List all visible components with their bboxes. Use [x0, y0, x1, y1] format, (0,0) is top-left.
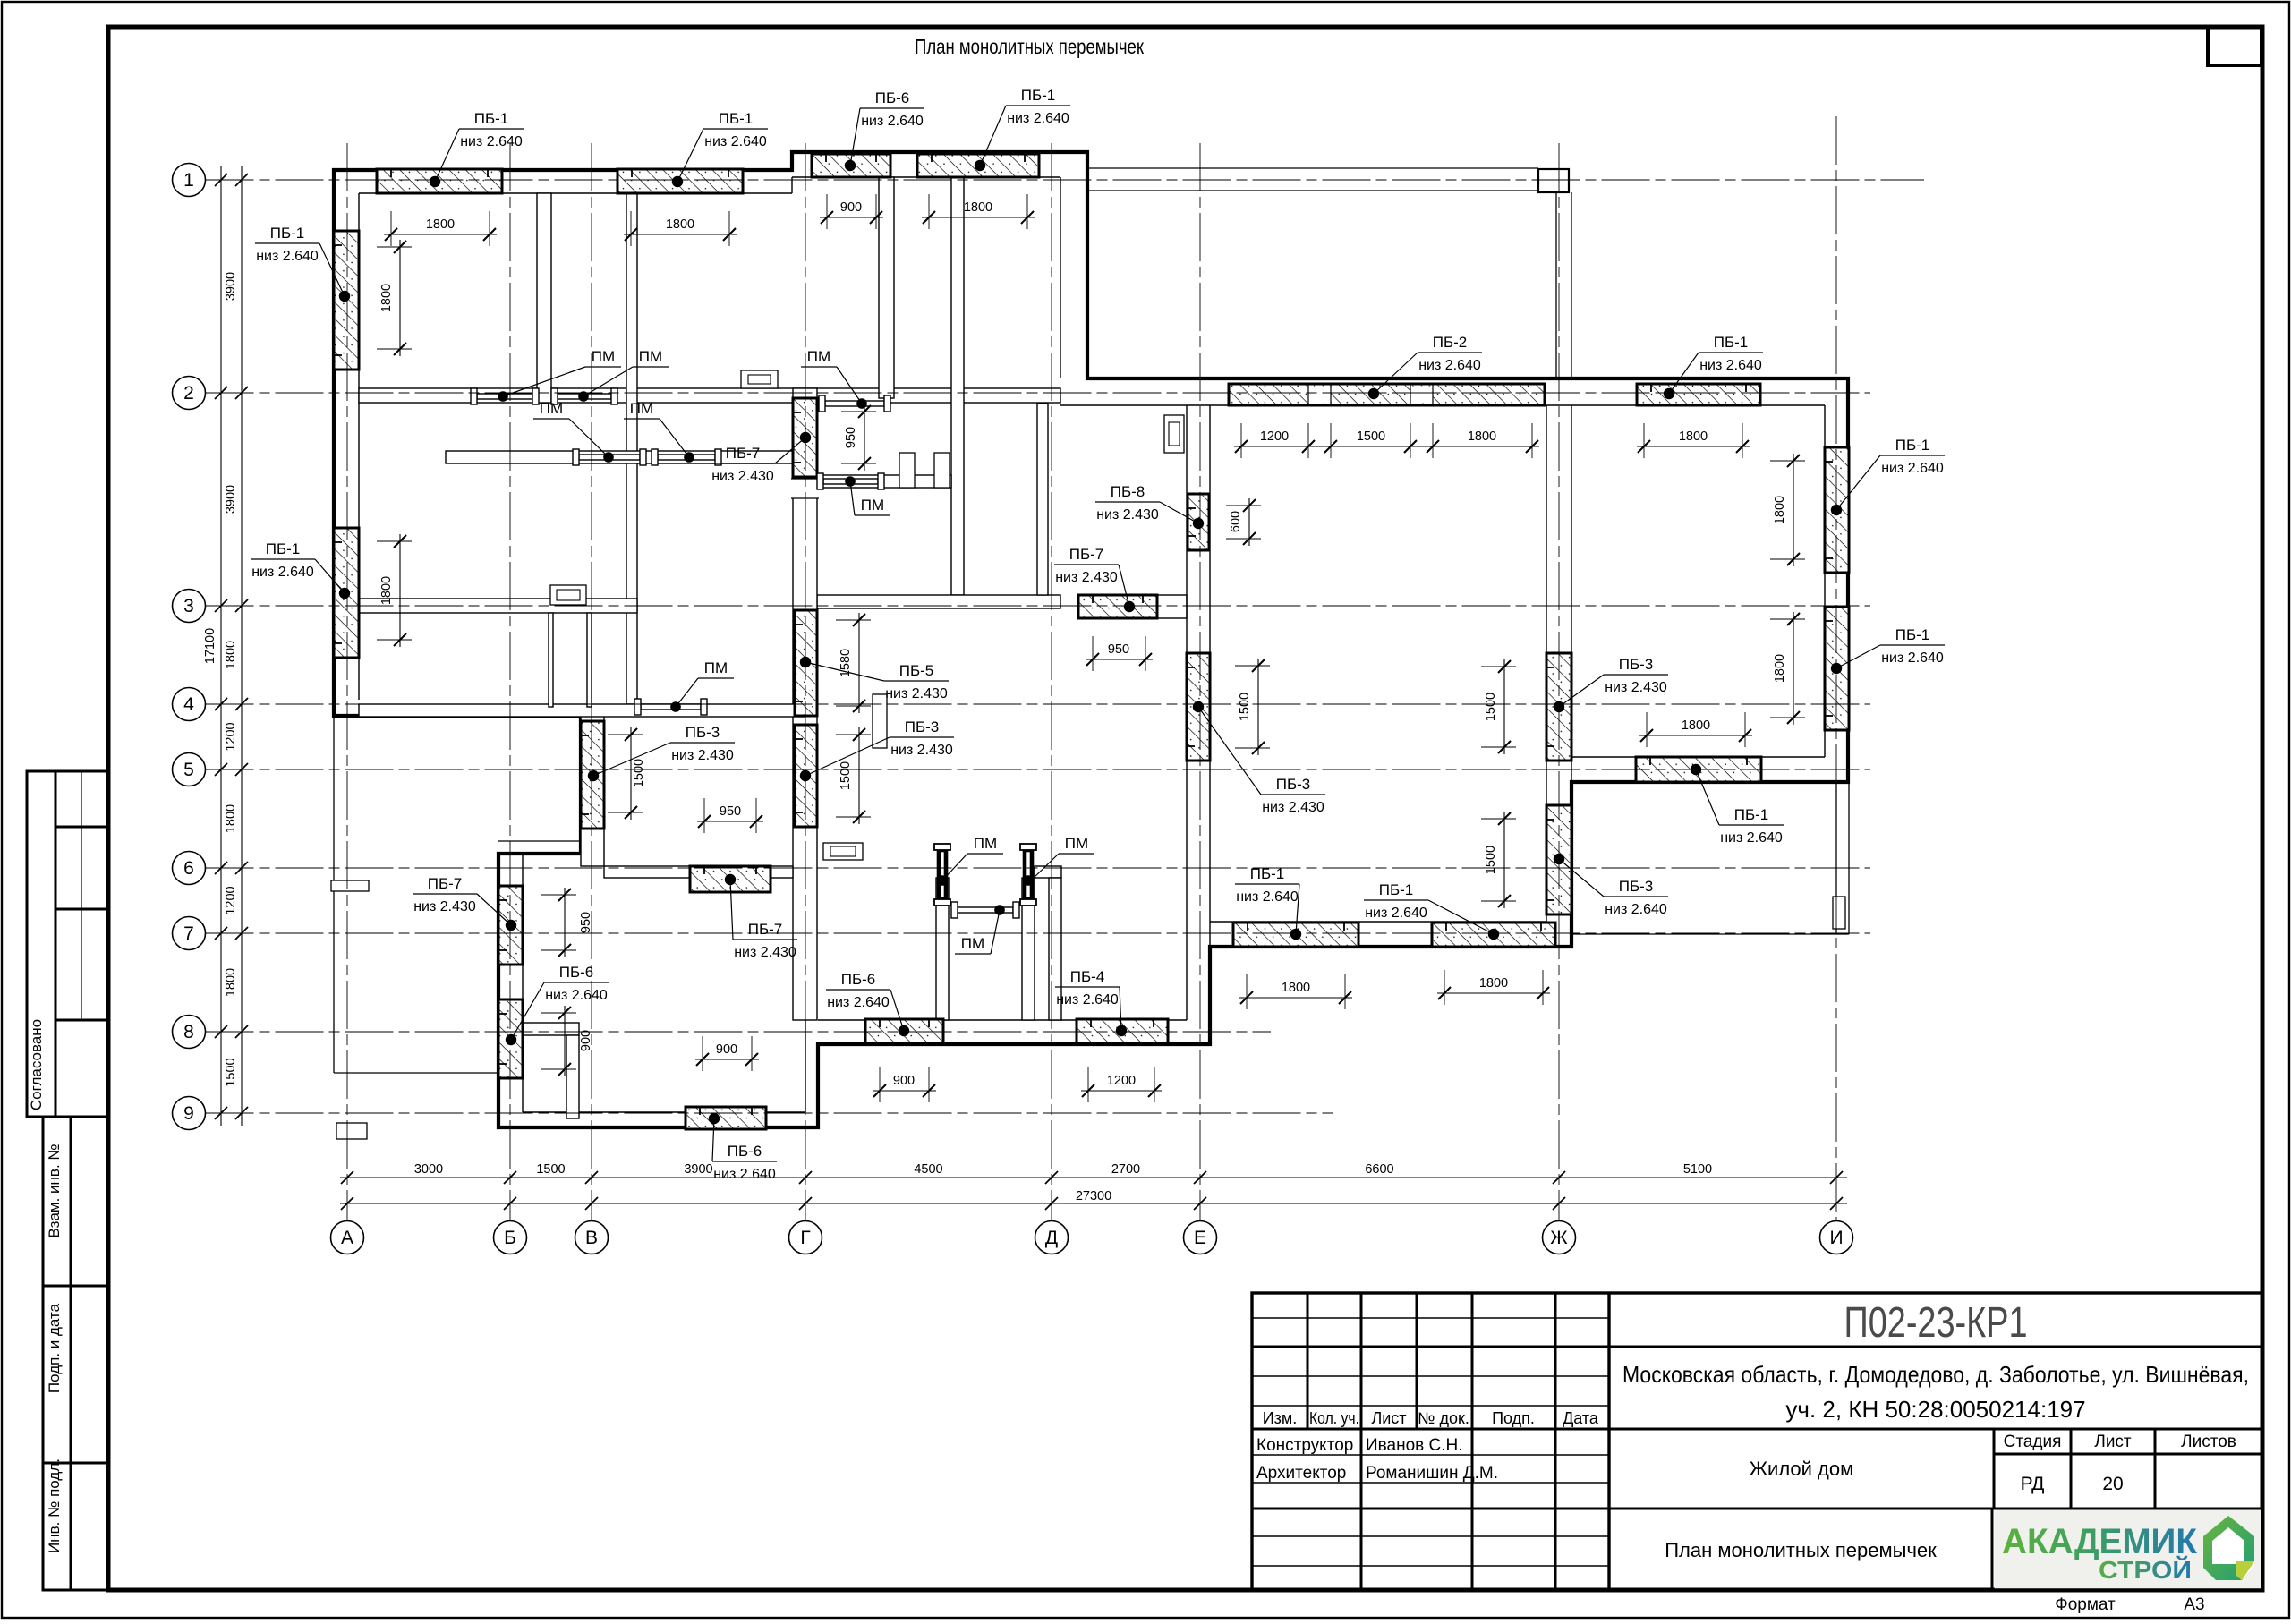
lintel ПБ-3 Ж-a	[1546, 653, 1571, 761]
wall axis Д south	[1049, 878, 1061, 1020]
left dimension lines	[220, 166, 222, 1126]
svg-text:1500: 1500	[839, 761, 853, 790]
label lintel row3 ПБ-7	[1054, 546, 1129, 607]
label lintel row9 ПБ-6	[712, 1118, 777, 1182]
wall duct east	[587, 613, 592, 707]
svg-text:1800: 1800	[426, 217, 455, 232]
label lintel row7-a	[1235, 865, 1299, 934]
axis column Д	[1051, 143, 1052, 1221]
wall porch west	[936, 878, 949, 1020]
wall boiler	[879, 177, 894, 398]
svg-text:900: 900	[716, 1042, 737, 1057]
lintel ПБ-5 Г-wall	[795, 610, 817, 716]
svg-text:СТРОЙ: СТРОЙ	[2099, 1555, 2192, 1584]
svg-text:950: 950	[1108, 642, 1129, 657]
svg-text:Лист: Лист	[2094, 1433, 2132, 1451]
svg-text:Подп. и дата: Подп. и дата	[46, 1303, 63, 1393]
axis column Е	[1199, 143, 1201, 1221]
svg-text:600: 600	[1229, 511, 1243, 532]
axis row 8	[206, 1031, 1272, 1033]
lintel ПБ-3 Е-wall	[1187, 653, 1210, 761]
svg-text:6: 6	[183, 858, 194, 879]
svg-text:ПМ: ПМ	[974, 835, 997, 852]
svg-text:1500: 1500	[536, 1162, 565, 1177]
wall corridor	[446, 451, 793, 463]
lintel ПМ corridor-a	[573, 449, 646, 465]
wall row6 east	[1035, 866, 1061, 878]
svg-text:1800: 1800	[1468, 429, 1496, 444]
label lintel top-3	[850, 89, 924, 166]
svg-text:2700: 2700	[1111, 1162, 1140, 1177]
label lintel left-1	[255, 225, 345, 296]
svg-text:Ж: Ж	[1550, 1228, 1568, 1248]
stamp box Взам. инв. №	[43, 1117, 108, 1286]
svg-text:8: 8	[183, 1022, 194, 1042]
wall room partition	[626, 193, 637, 704]
label lintel Г-b	[805, 718, 954, 776]
svg-text:1800: 1800	[1773, 654, 1787, 683]
svg-text:ПБ-1: ПБ-1	[1379, 881, 1414, 898]
axis column В	[591, 143, 592, 1221]
svg-text:ПБ-5: ПБ-5	[899, 662, 934, 679]
svg-text:ПБ-3: ПБ-3	[905, 718, 940, 735]
svg-text:ПБ-7: ПБ-7	[726, 445, 761, 462]
stamp box Согласовано	[27, 771, 108, 1117]
svg-text:Инв. № подл.: Инв. № подл.	[46, 1458, 63, 1553]
svg-text:Лист: Лист	[1371, 1409, 1406, 1427]
lintel ПБ-1 row7-b	[1432, 923, 1555, 947]
label lintel top-4	[980, 87, 1070, 166]
label lintel Е ПБ-3	[1198, 707, 1325, 815]
wall row6	[604, 866, 793, 878]
wall porch east	[1022, 878, 1035, 1020]
svg-text:ПБ-6: ПБ-6	[559, 964, 594, 981]
svg-text:ПБ-1: ПБ-1	[1250, 865, 1285, 882]
svg-text:ПБ-3: ПБ-3	[1619, 656, 1654, 673]
svg-text:1200: 1200	[224, 886, 238, 914]
svg-text:План монолитных перемычек: План монолитных перемычек	[1665, 1539, 1937, 1561]
lintel ПМ row2-b	[551, 388, 617, 404]
lintel ПБ-1 И-wall-2	[1825, 607, 1849, 730]
axis column Б	[509, 143, 511, 1221]
svg-text:низ 2.640: низ 2.640	[1236, 889, 1299, 905]
svg-text:А: А	[341, 1228, 353, 1248]
lintel ПБ-1 top-2	[617, 169, 743, 193]
stair door jambs	[899, 453, 915, 488]
frame corner box	[2208, 27, 2261, 65]
svg-text:Г: Г	[800, 1228, 810, 1248]
svg-text:ПБ-6: ПБ-6	[841, 971, 876, 988]
lintel ПБ-7 row3	[1078, 595, 1157, 618]
wall corridor east	[817, 475, 951, 488]
svg-text:1500: 1500	[1484, 846, 1498, 874]
vent shaft row2	[741, 370, 778, 388]
axis row 9	[206, 1112, 1334, 1114]
svg-text:900: 900	[840, 200, 862, 215]
vent shaft row3	[550, 585, 586, 605]
svg-text:ПБ-1: ПБ-1	[1714, 334, 1749, 351]
label lintel Г-a	[711, 438, 805, 484]
terrace window	[1833, 897, 1845, 929]
wall bath east	[566, 1035, 579, 1118]
svg-text:Конструктор: Конструктор	[1256, 1436, 1353, 1455]
svg-text:ПМ: ПМ	[630, 400, 653, 417]
lintel ПБ-3 Ж-b	[1546, 805, 1571, 914]
label lintel ПБ-5	[805, 662, 949, 701]
svg-text:Б: Б	[504, 1228, 516, 1248]
axis column Г	[805, 143, 806, 1221]
svg-text:РД: РД	[2021, 1474, 2045, 1494]
door gap in wall Г	[791, 479, 819, 498]
svg-text:1500: 1500	[224, 1058, 238, 1086]
wall bath	[523, 1023, 579, 1035]
lintel ПБ-8 Е-wall	[1188, 494, 1209, 550]
svg-text:План монолитных перемычек: План монолитных перемычек	[915, 35, 1145, 58]
wall stair	[1037, 404, 1048, 595]
wall row3 Д-Е	[1087, 595, 1187, 618]
svg-text:3: 3	[183, 596, 194, 616]
svg-text:ПБ-1: ПБ-1	[719, 110, 754, 127]
label ПМ	[955, 910, 1000, 954]
axis row 1	[206, 179, 1925, 181]
svg-text:4: 4	[183, 694, 194, 715]
left lower pier	[336, 1123, 367, 1139]
lintel ПБ-3 В-wall	[581, 721, 604, 829]
svg-text:1800: 1800	[224, 641, 238, 669]
lintel ПМ corridor-c	[817, 473, 884, 489]
label lintel Б-2	[413, 875, 511, 925]
svg-text:5100: 5100	[1683, 1162, 1712, 1177]
stamp box Подп. и дата	[43, 1286, 108, 1463]
svg-text:низ 2.430: низ 2.430	[890, 743, 953, 758]
svg-text:низ 2.430: низ 2.430	[1262, 800, 1324, 815]
axis row 2	[206, 392, 1871, 394]
svg-text:ПБ-2: ПБ-2	[1433, 334, 1468, 351]
svg-text:низ 2.640: низ 2.640	[1365, 906, 1427, 921]
lintel ПМ porch-e	[1020, 844, 1036, 906]
svg-text:Иванов С.Н.: Иванов С.Н.	[1366, 1436, 1463, 1455]
svg-text:Московская область, г. Домодед: Московская область, г. Домодедово, д. За…	[1622, 1361, 2249, 1388]
svg-text:1200: 1200	[1107, 1074, 1136, 1088]
svg-text:низ 2.430: низ 2.430	[1096, 507, 1159, 523]
lintel ПБ-7 Г-a	[793, 398, 817, 477]
terrace wall on axis Ж	[1555, 192, 1557, 378]
label lintel row8 ПБ-6	[826, 971, 904, 1031]
svg-text:ПМ: ПМ	[540, 400, 563, 417]
label lintel Ж-b	[1559, 859, 1668, 917]
svg-text:низ 2.640: низ 2.640	[1056, 992, 1119, 1008]
svg-text:низ 2.640: низ 2.640	[1418, 358, 1481, 373]
axis column Ж	[1558, 143, 1560, 1221]
svg-text:ПБ-1: ПБ-1	[474, 110, 509, 127]
lintel ПМ row2-a	[471, 388, 539, 404]
lintel ПБ-6 top-3	[812, 154, 890, 177]
svg-text:Стадия: Стадия	[2004, 1433, 2062, 1451]
wall row3 mid	[817, 595, 1060, 608]
svg-text:950: 950	[844, 427, 858, 448]
svg-text:ПБ-4: ПБ-4	[1070, 968, 1105, 985]
svg-text:1500: 1500	[1484, 693, 1498, 721]
axis row 4	[206, 703, 1871, 705]
wall duct west	[549, 613, 553, 707]
svg-text:ПМ: ПМ	[807, 348, 830, 365]
svg-text:П02-23-КР1: П02-23-КР1	[1844, 1299, 2028, 1347]
label lintel right-top	[1669, 334, 1763, 394]
svg-text:900: 900	[893, 1074, 915, 1088]
vent shaft axis Е	[1164, 415, 1184, 453]
svg-text:ПМ: ПМ	[1065, 835, 1088, 852]
axis row 5	[206, 769, 1871, 770]
wall axis В	[581, 716, 604, 866]
svg-text:Изм.: Изм.	[1263, 1409, 1298, 1427]
svg-text:низ 2.640: низ 2.640	[704, 134, 767, 149]
svg-text:Романишин Д.М.: Романишин Д.М.	[1366, 1464, 1498, 1483]
label lintel row5	[1696, 769, 1784, 846]
svg-text:1200: 1200	[1260, 429, 1289, 444]
lintel ПБ-1 left-1	[334, 231, 359, 370]
label lintel row7-b	[1364, 881, 1494, 934]
svg-text:В: В	[585, 1228, 598, 1248]
svg-text:низ 2.640: низ 2.640	[1605, 902, 1667, 917]
svg-text:9: 9	[183, 1103, 194, 1124]
lintel ПМ row4	[634, 699, 707, 715]
svg-text:5: 5	[183, 760, 194, 780]
svg-text:1800: 1800	[224, 968, 238, 997]
svg-text:6600: 6600	[1365, 1162, 1393, 1177]
svg-text:ПБ-8: ПБ-8	[1111, 483, 1145, 500]
left terrace pier	[331, 880, 369, 891]
lintel ПБ-1 row5 Ж-И	[1636, 757, 1761, 782]
lintel ПБ-6 row9	[686, 1107, 766, 1129]
svg-text:И: И	[1829, 1228, 1843, 1248]
label ПМ	[942, 835, 1003, 880]
label lintel Б-3	[511, 964, 609, 1040]
svg-text:7: 7	[183, 923, 194, 944]
svg-text:ПБ-1: ПБ-1	[266, 540, 301, 557]
svg-text:№ док.: № док.	[1418, 1409, 1469, 1427]
wall closet	[537, 193, 551, 403]
svg-text:1800: 1800	[964, 200, 992, 215]
label ПМ	[1031, 835, 1094, 880]
svg-text:1200: 1200	[224, 722, 238, 751]
wall row4	[359, 704, 805, 717]
label lintel ПБ-8	[1095, 483, 1198, 523]
wall axis Е	[1186, 405, 1188, 1020]
lintel ПБ-6 Б-3	[498, 999, 523, 1078]
svg-text:ПМ: ПМ	[961, 935, 984, 952]
svg-text:900: 900	[579, 1030, 593, 1051]
svg-text:ПБ-7: ПБ-7	[428, 875, 463, 892]
svg-text:низ 2.640: низ 2.640	[460, 134, 523, 149]
svg-text:3000: 3000	[414, 1162, 443, 1177]
svg-text:Согласовано: Согласовано	[28, 1019, 45, 1110]
svg-text:Е: Е	[1194, 1228, 1206, 1248]
svg-text:низ 2.640: низ 2.640	[251, 565, 314, 580]
svg-text:1500: 1500	[1357, 429, 1385, 444]
south-east terrace outline	[1835, 782, 1837, 934]
svg-text:1500: 1500	[632, 759, 646, 787]
axis row 6	[206, 867, 1871, 869]
svg-text:низ 2.640: низ 2.640	[713, 1167, 776, 1182]
svg-text:низ 2.430: низ 2.430	[734, 945, 796, 960]
bottom dimension lines	[340, 1177, 1847, 1178]
svg-text:1: 1	[183, 170, 194, 191]
terrace north thin walls	[1087, 167, 1538, 169]
svg-text:27300: 27300	[1076, 1189, 1111, 1203]
lintel ПБ-4 row8	[1077, 1019, 1168, 1043]
label ПМ	[676, 659, 734, 707]
lintel ПБ-3 Г-b	[795, 725, 817, 827]
label lintel top-1	[435, 110, 524, 182]
svg-text:1800: 1800	[1682, 718, 1710, 733]
svg-text:ПБ-3: ПБ-3	[1619, 878, 1654, 895]
svg-text:ПБ-1: ПБ-1	[270, 225, 305, 242]
lintel ПБ-7 row6	[690, 866, 771, 892]
svg-text:20: 20	[2102, 1474, 2123, 1494]
svg-text:2: 2	[183, 383, 194, 404]
label lintel top-2	[677, 110, 768, 182]
axis column А	[346, 143, 348, 1221]
svg-text:А3: А3	[2184, 1595, 2204, 1614]
svg-text:1800: 1800	[379, 576, 394, 605]
svg-text:3900: 3900	[224, 272, 238, 301]
wall row3 left	[359, 599, 637, 613]
svg-text:ПБ-1: ПБ-1	[1895, 437, 1930, 454]
svg-text:ПБ-3: ПБ-3	[1276, 776, 1311, 793]
label ПМ	[801, 348, 862, 404]
svg-text:3900: 3900	[224, 485, 238, 514]
column at Ж axis	[1538, 169, 1569, 192]
svg-text:низ 2.640: низ 2.640	[1881, 461, 1944, 476]
svg-text:Листов: Листов	[2181, 1433, 2236, 1451]
vent shaft row6	[823, 843, 863, 860]
svg-text:950: 950	[720, 804, 741, 819]
svg-text:Жилой дом: Жилой дом	[1750, 1458, 1854, 1480]
svg-text:низ 2.430: низ 2.430	[1055, 570, 1118, 585]
svg-text:низ 2.430: низ 2.430	[1605, 680, 1667, 695]
label ПМ	[533, 400, 609, 457]
svg-text:Архитектор: Архитектор	[1256, 1464, 1346, 1483]
svg-text:950: 950	[579, 912, 593, 933]
svg-text:Кол. уч.: Кол. уч.	[1309, 1409, 1359, 1427]
svg-text:1800: 1800	[379, 284, 394, 312]
svg-text:ПБ-1: ПБ-1	[1895, 626, 1930, 643]
axis column И	[1835, 116, 1837, 1221]
svg-text:низ 2.430: низ 2.430	[413, 899, 476, 914]
svg-text:ПМ: ПМ	[592, 348, 615, 365]
lintel ПБ-2 long	[1229, 384, 1545, 405]
lintel ПБ-1 top-4	[917, 154, 1039, 177]
label lintel И-1	[1836, 437, 1945, 510]
svg-text:низ 2.640: низ 2.640	[1699, 358, 1762, 373]
lintel ПБ-1 row7-a	[1233, 923, 1358, 947]
svg-text:ПБ-3: ПБ-3	[686, 724, 720, 741]
left terrace outline	[333, 713, 335, 1073]
svg-text:ПМ: ПМ	[639, 348, 662, 365]
lintel ПМ porch-s	[951, 902, 1019, 918]
svg-text:Подп.: Подп.	[1492, 1409, 1535, 1427]
axis row 3	[206, 605, 1871, 607]
svg-text:Дата: Дата	[1563, 1409, 1599, 1427]
lintel ПБ-6 row8	[865, 1019, 943, 1043]
svg-text:1800: 1800	[1773, 496, 1787, 524]
svg-text:Формат: Формат	[2055, 1595, 2116, 1614]
svg-text:17100: 17100	[203, 628, 217, 664]
vent shaft mid	[873, 694, 887, 748]
svg-text:низ 2.640: низ 2.640	[256, 249, 319, 264]
svg-text:3900: 3900	[684, 1162, 712, 1177]
lintel ПБ-1 right-block-top	[1637, 384, 1760, 405]
label ПМ	[503, 348, 621, 396]
svg-text:ПМ: ПМ	[704, 659, 728, 676]
title block	[1252, 1293, 2262, 1590]
building exterior wall outline	[334, 152, 1848, 1127]
wall axis Г	[793, 388, 817, 1020]
lintel ПБ-1 left-2	[334, 528, 359, 658]
label lintel ПБ-4	[1055, 968, 1121, 1031]
window dimensions	[384, 234, 497, 235]
wall axis Ж	[1546, 405, 1547, 947]
exterior wall inner faces	[359, 192, 792, 194]
svg-text:низ 2.430: низ 2.430	[671, 748, 734, 763]
label lintel left-2	[251, 540, 345, 593]
svg-text:уч. 2, КН 50:28:0050214:197: уч. 2, КН 50:28:0050214:197	[1785, 1396, 2085, 1423]
svg-text:1800: 1800	[224, 804, 238, 833]
svg-text:Д: Д	[1045, 1228, 1058, 1248]
svg-text:низ 2.640: низ 2.640	[1007, 111, 1069, 126]
svg-text:ПБ-7: ПБ-7	[1069, 546, 1104, 563]
label ПМ	[583, 348, 669, 396]
svg-text:1500: 1500	[1238, 693, 1252, 721]
logo АКАДЕМИК СТРОЙ	[1995, 1510, 2261, 1588]
svg-text:низ 2.640: низ 2.640	[1881, 650, 1944, 666]
label ПМ	[624, 400, 689, 457]
lintel ПБ-1 И-wall-1	[1825, 447, 1849, 573]
svg-text:1800: 1800	[1479, 976, 1508, 991]
lintel ПМ row2-c	[819, 395, 890, 412]
lintel ПБ-7 Б-2	[498, 886, 523, 965]
axis row 7	[206, 932, 1871, 934]
svg-text:ПБ-7: ПБ-7	[748, 921, 783, 938]
svg-text:1800: 1800	[1282, 981, 1310, 995]
svg-text:ПБ-6: ПБ-6	[728, 1143, 762, 1160]
svg-text:1800: 1800	[666, 217, 694, 232]
wall row2	[359, 388, 1060, 403]
lintel ПМ porch-w	[934, 844, 950, 906]
label lintel И-2	[1836, 626, 1945, 668]
svg-text:низ 2.640: низ 2.640	[861, 114, 924, 129]
svg-text:Взам. инв. №: Взам. инв. №	[46, 1144, 63, 1237]
lintel ПБ-1 top-1	[377, 169, 502, 193]
svg-text:ПБ-6: ПБ-6	[875, 89, 910, 106]
svg-text:ПБ-1: ПБ-1	[1734, 806, 1769, 823]
label ПМ	[850, 481, 890, 515]
svg-text:ПМ: ПМ	[861, 497, 884, 514]
svg-text:низ 2.640: низ 2.640	[545, 988, 608, 1003]
lintel ПМ corridor-b	[652, 449, 721, 465]
label lintel Ж-a	[1559, 656, 1668, 707]
label lintel ПБ-2	[1374, 334, 1482, 394]
svg-text:4500: 4500	[914, 1162, 942, 1177]
label lintel В	[593, 724, 735, 776]
svg-text:ПБ-1: ПБ-1	[1021, 87, 1056, 104]
label lintel row6	[730, 880, 797, 960]
wall stair west	[951, 177, 964, 595]
svg-text:низ 2.430: низ 2.430	[885, 686, 948, 701]
svg-text:низ 2.640: низ 2.640	[827, 995, 890, 1010]
stamp box Инв. № подл.	[43, 1463, 108, 1590]
svg-text:низ 2.430: низ 2.430	[711, 469, 774, 484]
